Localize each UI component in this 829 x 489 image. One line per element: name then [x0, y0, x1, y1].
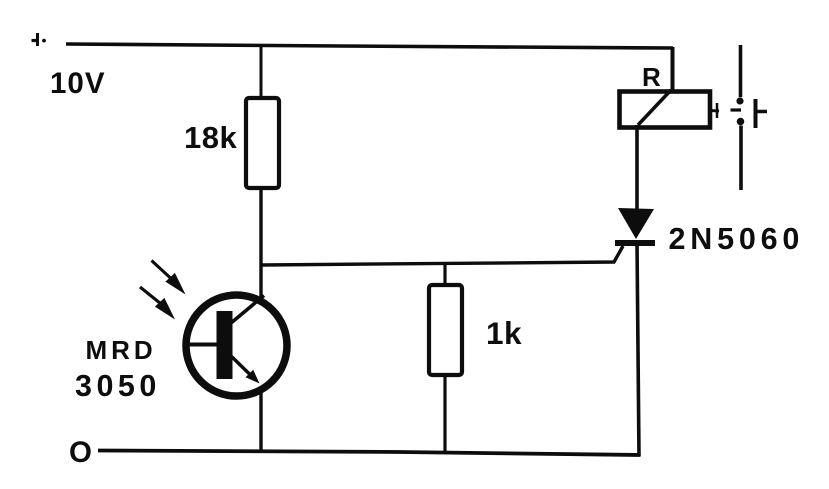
svg-text:1k: 1k [486, 315, 522, 351]
svg-text:MRD: MRD [86, 335, 157, 365]
svg-text:O: O [69, 436, 92, 469]
svg-text:R: R [642, 62, 661, 92]
svg-text:3050: 3050 [75, 369, 161, 403]
svg-text:2N5060: 2N5060 [669, 222, 805, 256]
svg-text:10V: 10V [50, 67, 106, 100]
svg-text:18k: 18k [184, 120, 237, 155]
